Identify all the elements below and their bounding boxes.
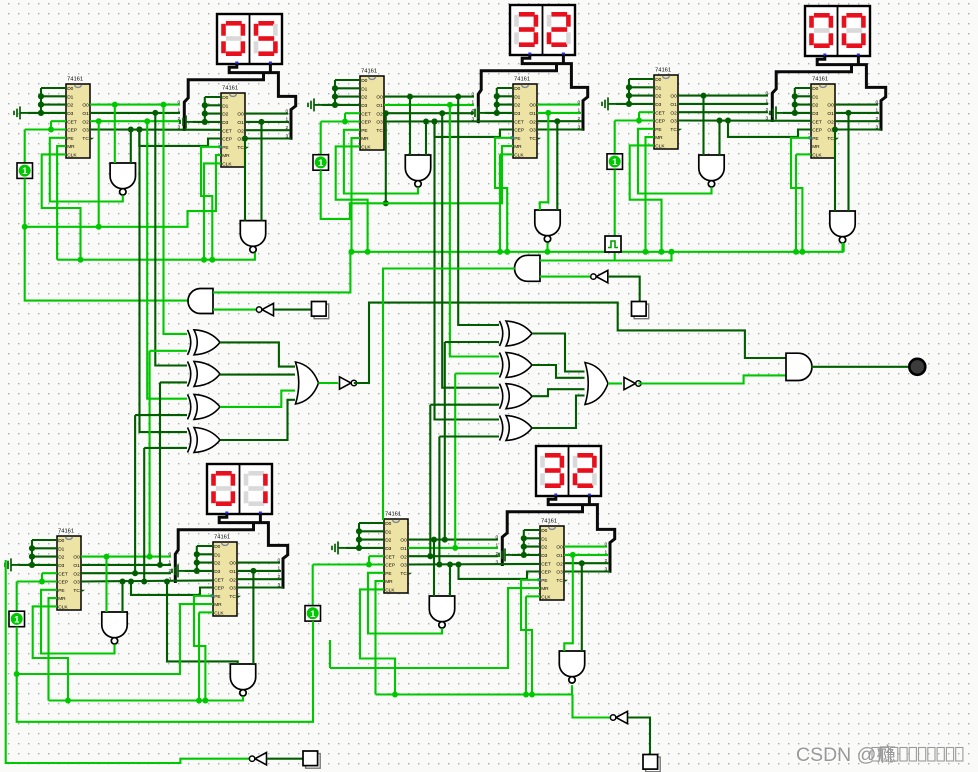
svg-text:D2: D2 bbox=[655, 94, 661, 100]
OR gate OR1 bbox=[296, 362, 319, 404]
svg-text:D0: D0 bbox=[655, 77, 661, 83]
svg-text:O0: O0 bbox=[82, 103, 89, 109]
wire terminal T1 to inverter bbox=[274, 309, 312, 311]
svg-text:D2: D2 bbox=[67, 103, 73, 109]
input bus B IC2 bbox=[497, 87, 513, 89]
svg-text:D2: D2 bbox=[214, 561, 220, 567]
svg-text:TC: TC bbox=[556, 578, 563, 584]
counter U-D2 74161 bbox=[211, 535, 242, 617]
wire O3 C IC1 to CET IC2 bbox=[678, 119, 811, 121]
svg-text:CEP: CEP bbox=[222, 137, 232, 143]
CEP staircase A IC2 bbox=[136, 127, 142, 133]
svg-text:O2: O2 bbox=[670, 110, 677, 116]
svg-text:1: 1 bbox=[612, 157, 618, 168]
AND gate AND-R (left facing) bbox=[515, 255, 541, 281]
svg-text:PE: PE bbox=[812, 136, 818, 142]
svg-text:CLK: CLK bbox=[58, 605, 68, 611]
NAND gate D2 bbox=[230, 664, 255, 696]
wire inverter to AND-R bbox=[540, 276, 594, 278]
NAND B2 input taps bbox=[545, 110, 551, 116]
wire logic state D to CEP bbox=[16, 582, 18, 612]
ground C IC1 bbox=[602, 97, 616, 110]
svg-text:D2: D2 bbox=[222, 112, 228, 118]
7-segment display B showing 32 bbox=[510, 5, 575, 56]
wire CLK C2 down bbox=[796, 153, 811, 155]
svg-text:D0: D0 bbox=[385, 521, 391, 527]
terminal T2 bbox=[632, 302, 649, 319]
svg-text:D3: D3 bbox=[655, 102, 661, 108]
7-segment display E showing 32 bbox=[536, 446, 601, 497]
NAND A2 input taps bbox=[242, 136, 248, 142]
output wires D IC1 bbox=[81, 556, 171, 558]
input bus A IC1 bbox=[41, 87, 66, 89]
svg-text:CET: CET bbox=[655, 110, 665, 116]
svg-text:O0: O0 bbox=[73, 555, 80, 561]
svg-text:MR: MR bbox=[514, 144, 522, 150]
clock source CLK1 bbox=[605, 236, 621, 252]
wire terminal T2 to inverter bbox=[608, 277, 640, 302]
svg-text:CLK: CLK bbox=[812, 153, 822, 159]
svg-text:O1: O1 bbox=[556, 553, 563, 559]
svg-text:O2: O2 bbox=[82, 119, 89, 125]
wire MR E1 down bbox=[376, 581, 385, 694]
display bus wires A bbox=[229, 64, 296, 140]
svg-text:D1: D1 bbox=[385, 529, 391, 535]
wire MR C1 down to rail bbox=[646, 137, 655, 252]
svg-text:D1: D1 bbox=[214, 552, 220, 558]
NAND E2 input taps bbox=[570, 552, 576, 558]
wire terminal T3 to inverter D bbox=[267, 758, 303, 760]
logic state B bbox=[313, 155, 329, 171]
svg-text:D1: D1 bbox=[514, 94, 520, 100]
svg-text:D2: D2 bbox=[58, 555, 64, 561]
wire O3 E IC1 to CET IC2 bbox=[408, 563, 540, 566]
svg-text:74161: 74161 bbox=[361, 69, 377, 75]
svg-text:O1: O1 bbox=[73, 563, 80, 569]
svg-text:O0: O0 bbox=[529, 103, 536, 109]
CEP staircase C IC2 bbox=[725, 118, 731, 124]
svg-text:PE: PE bbox=[58, 588, 64, 594]
svg-text:D0: D0 bbox=[222, 95, 228, 101]
7-segment display A showing 05 bbox=[217, 14, 282, 65]
wire MR D1 down bbox=[49, 598, 58, 700]
inverter U-INV-R bbox=[591, 270, 608, 282]
svg-text:74161: 74161 bbox=[222, 86, 238, 92]
logic state A bbox=[17, 163, 33, 179]
svg-text:O0: O0 bbox=[670, 94, 677, 100]
wire AND3 output to probe bbox=[811, 366, 910, 368]
wire CLK A2 down bbox=[204, 163, 221, 259]
wire XOR4 out to OR1 bbox=[220, 400, 295, 440]
svg-text:D1: D1 bbox=[812, 94, 818, 100]
XOR gate X4 bbox=[188, 428, 221, 453]
wire PE E2 staircase bbox=[521, 580, 540, 695]
wire CLK A1 down bbox=[42, 154, 81, 259]
svg-text:D1: D1 bbox=[222, 103, 228, 109]
svg-text:O3: O3 bbox=[556, 570, 563, 576]
wire cluster1 result to AND R3 (dark, long) bbox=[354, 303, 786, 383]
svg-text:D2: D2 bbox=[361, 95, 367, 101]
svg-text:CEP: CEP bbox=[361, 120, 371, 126]
display bus wires B bbox=[522, 55, 588, 131]
wire NAND C2 output down bbox=[841, 243, 843, 252]
svg-text:CEP: CEP bbox=[214, 586, 224, 592]
wire CLK E1 down bbox=[360, 589, 395, 694]
terminal T3 bbox=[303, 751, 320, 768]
svg-text:CET: CET bbox=[67, 119, 77, 125]
wire XOR3 out to OR1 bbox=[220, 391, 295, 407]
CET/CEP wires D IC1 bbox=[42, 572, 57, 574]
svg-text:PE: PE bbox=[385, 571, 391, 577]
ground E IC1 bbox=[332, 541, 346, 554]
svg-text:MR: MR bbox=[655, 135, 663, 141]
svg-text:CLK: CLK bbox=[385, 588, 395, 594]
logic probe (dark circle) bbox=[909, 359, 925, 375]
wire logic state A to CEP bbox=[24, 130, 26, 163]
XOR gate X6 bbox=[500, 353, 533, 378]
ground C IC2 bbox=[770, 106, 784, 119]
svg-text:D0: D0 bbox=[67, 86, 73, 92]
wire PE loop E bbox=[368, 573, 442, 634]
svg-text:O0: O0 bbox=[237, 112, 244, 118]
svg-text:D0: D0 bbox=[214, 544, 220, 550]
inverter U-INV-L bbox=[256, 303, 273, 315]
inverter U-INV1 bbox=[340, 377, 357, 389]
counter U-E2 74161 bbox=[538, 519, 569, 601]
input bus B IC1 bbox=[335, 79, 360, 81]
ground E IC2 bbox=[499, 548, 513, 561]
logic state C bbox=[607, 154, 623, 170]
svg-text:O1: O1 bbox=[529, 111, 536, 117]
7-segment display D showing 01 bbox=[207, 464, 272, 515]
svg-text:CET: CET bbox=[385, 554, 395, 560]
svg-text:CET: CET bbox=[514, 119, 524, 125]
ground A IC1 bbox=[14, 106, 28, 119]
wire CLK B1 down to rail bbox=[336, 146, 368, 251]
svg-text:MR: MR bbox=[541, 586, 549, 592]
svg-text:O3: O3 bbox=[670, 119, 677, 125]
wire state A bottom to AND-L output net bbox=[25, 178, 188, 300]
svg-text:74161: 74161 bbox=[812, 77, 828, 83]
svg-text:O1: O1 bbox=[229, 569, 236, 575]
wire O3 B IC1 to CET IC2 bbox=[384, 120, 513, 122]
input bus A IC2 bbox=[205, 96, 221, 98]
svg-text:D0: D0 bbox=[812, 86, 818, 92]
svg-text:TC: TC bbox=[237, 145, 244, 151]
CET/CEP wires E IC1 bbox=[369, 555, 384, 557]
svg-text:TC: TC bbox=[82, 136, 89, 142]
wire O3 A IC1 to CET IC2 bbox=[90, 128, 221, 130]
svg-text:CLK: CLK bbox=[214, 611, 224, 617]
7-segment display C showing 00 bbox=[805, 6, 870, 57]
svg-text:CET: CET bbox=[58, 571, 68, 577]
NAND C2 input taps bbox=[832, 127, 838, 133]
wire NAND D2 output run bbox=[49, 696, 244, 700]
NAND A1 input taps bbox=[112, 102, 118, 108]
svg-text:TC: TC bbox=[529, 136, 536, 142]
inverter U-INV-D bbox=[249, 753, 266, 765]
svg-text:MR: MR bbox=[67, 144, 75, 150]
svg-text:D1: D1 bbox=[67, 94, 73, 100]
input bus E IC2 bbox=[524, 529, 540, 531]
CEP staircase B IC2 bbox=[432, 119, 438, 125]
wire PE A2 staircase bbox=[201, 147, 221, 260]
svg-text:1: 1 bbox=[14, 614, 20, 625]
svg-text:CLK: CLK bbox=[361, 145, 371, 151]
AND gate AND-L (left facing) bbox=[188, 289, 213, 314]
XOR gate X5 bbox=[500, 321, 533, 346]
NAND C1 input taps bbox=[701, 93, 707, 99]
svg-text:PE: PE bbox=[214, 594, 220, 600]
wire XOR7 out to OR2 bbox=[532, 389, 585, 396]
svg-text:TC: TC bbox=[376, 128, 383, 134]
wire OR2 to inverter bbox=[608, 382, 622, 384]
ground D IC2 bbox=[172, 564, 186, 577]
svg-text:O1: O1 bbox=[400, 546, 407, 552]
wire state C down to AND-R input bbox=[614, 170, 616, 261]
counter U-A2 74161 bbox=[219, 86, 250, 168]
svg-text:PE: PE bbox=[514, 136, 520, 142]
wire CLK C1 down to rail bbox=[630, 145, 662, 251]
svg-text:CET: CET bbox=[222, 128, 232, 134]
svg-text:CLK: CLK bbox=[67, 153, 77, 159]
output wires B IC1 bbox=[384, 96, 474, 98]
svg-text:PE: PE bbox=[222, 145, 228, 151]
svg-text:MR: MR bbox=[222, 153, 230, 159]
svg-text:D0: D0 bbox=[541, 528, 547, 534]
svg-text:O0: O0 bbox=[827, 103, 834, 109]
svg-text:CEP: CEP bbox=[58, 580, 68, 586]
svg-text:O1: O1 bbox=[237, 120, 244, 126]
wire logic state E to CEP bbox=[312, 565, 314, 606]
input bus C IC2 bbox=[795, 87, 811, 89]
svg-text:CET: CET bbox=[361, 111, 371, 117]
svg-text:CET: CET bbox=[541, 561, 551, 567]
svg-text:MR: MR bbox=[812, 144, 820, 150]
wire O2 tap A down-left bbox=[96, 118, 102, 124]
svg-text:MR: MR bbox=[58, 596, 66, 602]
counter U-E1 74161 bbox=[384, 512, 412, 594]
wire PE loop B bbox=[344, 130, 418, 194]
svg-text:CEP: CEP bbox=[812, 128, 822, 134]
svg-text:O1: O1 bbox=[376, 103, 383, 109]
svg-text:O2: O2 bbox=[827, 119, 834, 125]
wire O3 D IC1 to CET IC2 bbox=[81, 580, 213, 581]
svg-text:D3: D3 bbox=[222, 120, 228, 126]
wire NAND B2 output to rail bbox=[546, 243, 548, 252]
wire cluster2 result to AND R3 (bright, long) bbox=[638, 375, 786, 383]
ground D IC1 bbox=[5, 558, 19, 571]
svg-text:O0: O0 bbox=[556, 545, 563, 551]
NAND gate C2 bbox=[830, 211, 855, 243]
svg-text:74161: 74161 bbox=[514, 77, 530, 83]
svg-text:CEP: CEP bbox=[514, 128, 524, 134]
wire PE loop C bbox=[638, 129, 712, 194]
wire rail end up to NAND C2 output bbox=[843, 243, 845, 252]
svg-text:O2: O2 bbox=[73, 571, 80, 577]
ground B IC2 bbox=[472, 106, 486, 119]
svg-text:D3: D3 bbox=[67, 111, 73, 117]
svg-text:D1: D1 bbox=[655, 85, 661, 91]
wire MR D2 feed bbox=[17, 604, 213, 674]
input bus E IC1 bbox=[359, 522, 384, 524]
terminal T4 bbox=[643, 755, 660, 772]
NAND gate E2 bbox=[559, 651, 584, 683]
svg-text:CEP: CEP bbox=[67, 128, 77, 134]
svg-text:D2: D2 bbox=[385, 538, 391, 544]
wire state D bottom chain bbox=[17, 621, 313, 722]
svg-text:CET: CET bbox=[214, 577, 224, 583]
CET/CEP wires A IC1 bbox=[51, 120, 66, 122]
wire MR B1 down to rail bbox=[352, 138, 361, 252]
output wires A IC1 bbox=[90, 104, 180, 106]
svg-text:74161: 74161 bbox=[541, 519, 557, 525]
svg-text:PE: PE bbox=[361, 128, 367, 134]
counter U-A1 74161 bbox=[66, 77, 94, 159]
svg-text:D1: D1 bbox=[541, 536, 547, 542]
ground B IC1 bbox=[308, 98, 322, 111]
svg-text:D3: D3 bbox=[361, 103, 367, 109]
wire PE loop A bbox=[50, 138, 123, 202]
svg-text:CEP: CEP bbox=[655, 119, 665, 125]
svg-text:D3: D3 bbox=[541, 553, 547, 559]
svg-text:O2: O2 bbox=[229, 577, 236, 583]
svg-text:O1: O1 bbox=[82, 111, 89, 117]
output wires B IC2 bbox=[537, 104, 580, 106]
svg-text:74161: 74161 bbox=[67, 77, 83, 83]
CEP staircase E IC2 bbox=[456, 562, 462, 568]
XOR gate X2 bbox=[188, 361, 221, 386]
svg-text:1: 1 bbox=[22, 166, 28, 177]
wire O2 tap B down bbox=[383, 110, 389, 116]
output wires E IC1 bbox=[408, 539, 498, 541]
wire XOR1 out to OR1 bbox=[220, 342, 295, 366]
svg-text:CLK: CLK bbox=[222, 162, 232, 168]
svg-text:D0: D0 bbox=[58, 538, 64, 544]
NAND D2 input taps bbox=[164, 579, 170, 585]
svg-text:CLK: CLK bbox=[514, 153, 524, 159]
svg-text:1: 1 bbox=[310, 609, 316, 620]
wire CLK D2 down bbox=[199, 611, 213, 613]
counter U-C2 74161 bbox=[809, 77, 840, 159]
svg-text:74161: 74161 bbox=[385, 512, 401, 518]
wire PE D2 staircase bbox=[194, 596, 213, 701]
svg-text:O3: O3 bbox=[529, 128, 536, 134]
NAND gate A1 bbox=[110, 163, 135, 195]
NAND D1 input taps bbox=[104, 554, 110, 560]
svg-text:MR: MR bbox=[385, 579, 393, 585]
svg-text:CLK: CLK bbox=[541, 595, 551, 601]
svg-text:D2: D2 bbox=[514, 103, 520, 109]
XOR gate X7 bbox=[500, 384, 533, 409]
svg-text:D3: D3 bbox=[385, 546, 391, 552]
terminal T1 bbox=[312, 302, 329, 319]
wire state B chain to MR B2 bbox=[321, 146, 513, 219]
svg-text:D3: D3 bbox=[58, 563, 64, 569]
inverter U-INV-E bbox=[610, 711, 627, 723]
wire MR A2 from state chain bbox=[25, 155, 221, 227]
ground A IC2 bbox=[180, 115, 194, 128]
wire XOR8 out to OR2 bbox=[532, 396, 585, 429]
svg-text:D1: D1 bbox=[58, 546, 64, 552]
NAND gate E1 bbox=[429, 596, 454, 628]
XOR gate X1 bbox=[188, 330, 221, 355]
svg-text:CEP: CEP bbox=[541, 570, 551, 576]
svg-text:D0: D0 bbox=[514, 86, 520, 92]
output wires D IC2 bbox=[237, 562, 280, 564]
svg-text:TC: TC bbox=[73, 588, 80, 594]
svg-text:74161: 74161 bbox=[655, 68, 671, 74]
wire XOR2 out to OR1 bbox=[220, 374, 295, 376]
svg-text:D3: D3 bbox=[812, 111, 818, 117]
input bus D IC1 bbox=[32, 539, 57, 541]
svg-text:TC: TC bbox=[229, 594, 236, 600]
AND gate AND3 bbox=[786, 353, 812, 380]
svg-text:O3: O3 bbox=[400, 563, 407, 569]
svg-text:O2: O2 bbox=[237, 128, 244, 134]
svg-text:D2: D2 bbox=[812, 103, 818, 109]
logic state D bbox=[9, 611, 25, 627]
output wires C IC1 bbox=[678, 95, 768, 97]
svg-text:O2: O2 bbox=[556, 561, 563, 567]
svg-text:TC: TC bbox=[670, 127, 677, 133]
wire CLK D1 down bbox=[33, 606, 68, 700]
display bus wires E bbox=[548, 496, 615, 573]
logic state E bbox=[305, 606, 321, 622]
display bus wires C bbox=[817, 56, 886, 131]
svg-text:O2: O2 bbox=[400, 554, 407, 560]
svg-text:74161: 74161 bbox=[58, 529, 74, 535]
svg-text:D3: D3 bbox=[514, 111, 520, 117]
svg-text:O3: O3 bbox=[229, 586, 236, 592]
CET/CEP wires C IC1 bbox=[639, 111, 654, 113]
counter U-C1 74161 bbox=[654, 68, 682, 150]
inverter U-INV2 bbox=[624, 377, 641, 389]
svg-text:MR: MR bbox=[361, 136, 369, 142]
svg-text:O1: O1 bbox=[670, 102, 677, 108]
svg-text:TC: TC bbox=[827, 136, 834, 142]
svg-text:1: 1 bbox=[318, 158, 324, 169]
svg-text:O2: O2 bbox=[529, 119, 536, 125]
CEP staircase D IC2 bbox=[128, 579, 134, 585]
svg-text:CEP: CEP bbox=[385, 563, 395, 569]
NAND gate B1 bbox=[405, 155, 430, 187]
wire MR A1 down bbox=[57, 146, 66, 260]
NAND gate D1 bbox=[102, 612, 127, 644]
svg-text:TC: TC bbox=[400, 571, 407, 577]
input bus D IC2 bbox=[197, 545, 213, 547]
svg-text:O0: O0 bbox=[229, 561, 236, 567]
wire NAND A2 output rail bbox=[57, 253, 255, 260]
XOR gate X3 bbox=[188, 394, 221, 419]
NAND gate B2 bbox=[535, 210, 560, 242]
svg-text:PE: PE bbox=[655, 127, 661, 133]
OR gate OR2 bbox=[585, 363, 608, 405]
wire inverter to AND-L bbox=[213, 309, 259, 311]
svg-text:D0: D0 bbox=[361, 78, 367, 84]
wire AND-R output down to block E bbox=[383, 269, 515, 521]
svg-text:D2: D2 bbox=[541, 545, 547, 551]
svg-text:PE: PE bbox=[541, 578, 547, 584]
input bus C IC1 bbox=[629, 78, 654, 80]
wire PE B2 staircase from rail bbox=[504, 249, 510, 255]
wire PE C2 staircase from rail bbox=[791, 138, 811, 252]
svg-text:O0: O0 bbox=[400, 538, 407, 544]
svg-text:CET: CET bbox=[812, 119, 822, 125]
svg-text:O0: O0 bbox=[376, 95, 383, 101]
NAND E1 input taps bbox=[431, 537, 437, 543]
wire CLK E2 down bbox=[526, 595, 540, 597]
